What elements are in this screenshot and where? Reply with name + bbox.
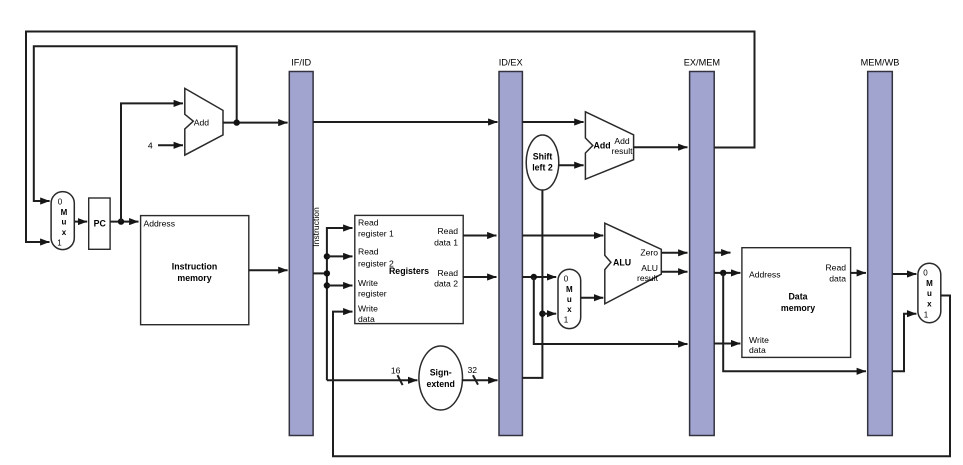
sign-extend unit <box>419 346 463 410</box>
svg-text:4: 4 <box>148 141 153 151</box>
svg-text:M: M <box>566 285 573 294</box>
svg-text:u: u <box>62 218 67 227</box>
svg-text:left 2: left 2 <box>532 163 553 173</box>
svg-text:0: 0 <box>58 198 63 207</box>
wire EX/MEM write data to data memory <box>714 343 740 345</box>
svg-text:x: x <box>927 300 932 309</box>
svg-text:1: 1 <box>57 238 62 247</box>
svg-text:Address: Address <box>749 270 781 280</box>
svg-text:Read: Read <box>358 217 379 227</box>
wire Read data 1 to ID/EX <box>463 235 497 237</box>
svg-text:0: 0 <box>923 269 928 278</box>
svg-text:Read: Read <box>437 268 458 278</box>
register PC <box>89 198 110 249</box>
pipeline register ID/EX <box>499 58 523 436</box>
wire ALU result bypass to MEM/WB <box>723 273 866 371</box>
wire MEM/WB read data to WB mux input 0 <box>892 273 916 275</box>
svg-text:Data: Data <box>788 292 807 302</box>
wire ID/EX Read data 1 to ALU <box>522 235 603 237</box>
instruction memory <box>141 216 249 325</box>
wire ID/EX immediate up to shift left 2 <box>522 190 542 378</box>
node instruction junction 1 <box>324 270 330 276</box>
svg-text:extend: extend <box>427 379 455 389</box>
svg-text:x: x <box>62 228 67 237</box>
wire Read data 2 to ID/EX <box>463 276 497 278</box>
wire Add output to IF/ID <box>223 122 288 124</box>
wire to Write register <box>327 285 353 287</box>
wire IF/ID to instruction bus <box>313 272 327 274</box>
svg-text:M: M <box>61 208 68 217</box>
pipeline register EX/MEM <box>684 58 720 436</box>
svg-text:Add: Add <box>614 136 630 146</box>
svg-text:Instruction: Instruction <box>311 207 321 247</box>
svg-text:x: x <box>567 305 572 314</box>
svg-text:PC: PC <box>94 219 107 229</box>
svg-text:EX/MEM: EX/MEM <box>684 58 720 68</box>
wire write-back mux output to registers Write data <box>333 296 950 457</box>
node ALU result junction <box>720 270 726 276</box>
svg-text:result: result <box>611 146 633 156</box>
svg-text:MEM/WB: MEM/WB <box>861 58 900 68</box>
svg-text:u: u <box>927 289 932 298</box>
svg-text:u: u <box>567 295 572 304</box>
wire ALU result to EX/MEM <box>661 271 687 273</box>
wire branch Add result to EX/MEM <box>634 146 688 148</box>
svg-text:Registers: Registers <box>389 266 429 276</box>
svg-text:1: 1 <box>564 316 569 325</box>
svg-text:Write: Write <box>358 278 378 288</box>
wire immediate to ALU mux input 1 <box>542 313 556 315</box>
wire MEM/WB ALU result to WB mux input 1 <box>892 314 916 372</box>
svg-text:memory: memory <box>177 273 211 283</box>
svg-text:result: result <box>637 273 659 283</box>
pipeline register MEM/WB <box>861 58 900 436</box>
wire PC junction up to Add <box>121 103 183 221</box>
svg-text:1: 1 <box>924 311 929 320</box>
wire instruction memory to IF/ID <box>249 269 288 271</box>
svg-text:ID/EX: ID/EX <box>499 58 523 68</box>
data memory <box>742 248 851 358</box>
wire branch target from EX/MEM to mux input 1 <box>26 32 755 243</box>
svg-text:Add: Add <box>594 141 611 151</box>
wire data memory Read data to MEM/WB <box>851 272 866 274</box>
node Add output junction <box>234 119 240 125</box>
svg-text:ALU: ALU <box>641 263 658 273</box>
svg-text:16: 16 <box>391 366 401 376</box>
mux M2 (ALU source mux) <box>558 269 581 328</box>
wire to Read register 2 <box>327 255 353 257</box>
svg-text:register: register <box>358 289 387 299</box>
svg-text:Shift: Shift <box>533 152 553 162</box>
svg-text:data: data <box>829 274 846 284</box>
wire shift left 2 to branch Add <box>559 164 584 166</box>
node instruction junction 2 <box>324 253 330 259</box>
pipeline register IF/ID <box>289 58 313 436</box>
svg-text:Add: Add <box>194 118 210 128</box>
svg-text:Read: Read <box>358 246 379 256</box>
svg-text:Write: Write <box>358 304 378 314</box>
svg-text:IF/ID: IF/ID <box>291 58 311 68</box>
node PC output junction <box>118 218 124 224</box>
svg-text:Instruction: Instruction <box>172 261 217 271</box>
registers box <box>355 215 463 324</box>
wire 4 into Add <box>158 144 183 146</box>
wire mux to PC <box>74 221 87 223</box>
wire sign-extend to ID/EX <box>462 379 498 381</box>
ALU U1 <box>605 223 662 304</box>
adder Add (PC+4) <box>185 88 223 155</box>
wire ALU mux to ALU <box>581 297 604 299</box>
svg-text:M: M <box>926 279 933 288</box>
svg-text:Address: Address <box>144 218 176 228</box>
svg-text:data: data <box>749 345 766 355</box>
svg-text:0: 0 <box>564 275 569 284</box>
node instruction junction 3 <box>324 282 330 288</box>
wire Read data 2 down to EX/MEM (write data) <box>534 277 688 344</box>
svg-text:Read: Read <box>825 263 846 273</box>
svg-text:Sign-: Sign- <box>430 368 452 378</box>
svg-text:32: 32 <box>468 365 478 375</box>
mux M1 (PC source mux) <box>51 192 74 250</box>
wire PC to instruction memory Address <box>111 221 139 223</box>
wire ID/EX PC+4 to branch Add <box>522 121 583 123</box>
mux M3 (write-back mux) <box>918 263 941 323</box>
wire IF/ID PC+4 to ID/EX <box>313 121 497 123</box>
wire instruction to sign-extend <box>327 379 418 381</box>
svg-text:memory: memory <box>781 303 815 313</box>
svg-text:register 1: register 1 <box>358 228 394 238</box>
wire Zero stub out of EX/MEM <box>714 252 730 254</box>
svg-text:data: data <box>358 314 375 324</box>
wire PC+4 feedback to mux input 0 <box>34 46 237 201</box>
svg-text:Read: Read <box>437 226 458 236</box>
svg-text:Write: Write <box>749 335 769 345</box>
shift left 2 unit <box>526 135 559 190</box>
adder Add (branch target) <box>585 112 633 179</box>
svg-text:Zero: Zero <box>640 248 658 258</box>
svg-text:data 1: data 1 <box>434 237 458 247</box>
wire EX/MEM ALU result to data memory Address <box>714 272 740 274</box>
wire instruction bus vertical <box>327 228 353 380</box>
node Read data 2 junction <box>531 274 537 280</box>
wire ALU Zero to EX/MEM <box>661 252 687 254</box>
svg-text:data 2: data 2 <box>434 279 458 289</box>
wire ID/EX Read data 2 to ALU mux input 0 <box>522 276 556 278</box>
node immediate junction <box>539 311 545 317</box>
svg-text:ALU: ALU <box>613 258 631 268</box>
